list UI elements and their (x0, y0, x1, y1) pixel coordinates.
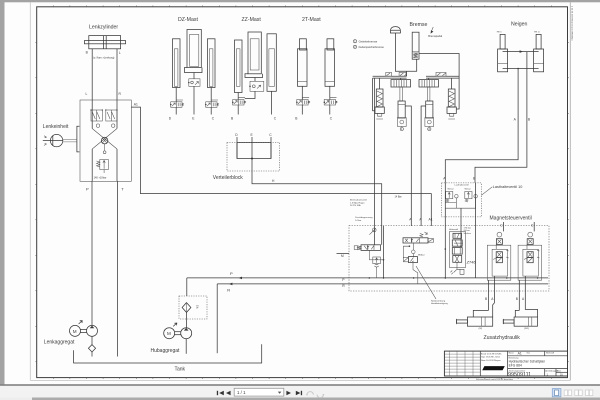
svg-text:Lenkaggregat: Lenkaggregat (44, 340, 75, 346)
svg-text:HK re: HK re (534, 30, 540, 33)
connector wire (368, 250, 370, 259)
wire piston side (503, 68, 539, 70)
wire (301, 86, 303, 99)
internal wires (445, 198, 475, 208)
svg-text:10u: 10u (196, 305, 199, 310)
wire (237, 105, 239, 115)
svg-text:Bremse: Bremse (410, 22, 428, 28)
svg-text:Hubventil: Hubventil (449, 228, 459, 231)
wire rod side (503, 51, 539, 53)
button last page (296, 391, 301, 395)
valve block boundary (349, 226, 549, 292)
wire (210, 107, 212, 114)
gauge port (372, 228, 376, 232)
pump P2 (181, 328, 192, 339)
svg-text:R: R (227, 287, 230, 292)
svg-text:M: M (167, 331, 171, 336)
svg-text:Gepr 13.05.98 L.Schm: Gepr 13.05.98 L.Schm (481, 356, 500, 359)
tilt cylinder right (536, 34, 541, 49)
brake rail right (426, 75, 459, 77)
svg-text:DZ-Mast: DZ-Mast (178, 17, 198, 23)
wire C stub (270, 137, 272, 159)
svg-text:90 bar: 90 bar (448, 188, 454, 191)
svg-text:Druckbegrenzung: Druckbegrenzung (355, 216, 373, 219)
wire H to valve block (252, 159, 382, 227)
cylinder foot (245, 74, 263, 78)
svg-text:(W): (W) (479, 328, 483, 330)
cylinder 2T right (327, 39, 334, 50)
wire R cylinder to steering unit (116, 49, 118, 100)
leader to annotation (416, 266, 436, 299)
steering wheel (50, 134, 62, 146)
legend item 2 Federspeicherbremse (353, 45, 356, 48)
svg-text:14 Bar: 14 Bar (395, 196, 402, 199)
scan right trim line (569, 2, 571, 380)
svg-text:A1: A1 (429, 217, 433, 221)
load holding valve box (441, 183, 481, 217)
wire master cylinder right circuit (419, 54, 459, 110)
R rail (217, 283, 548, 285)
cylinder Lenkzylinder through-rod (84, 41, 125, 44)
svg-text:90 bar: 90 bar (465, 188, 471, 191)
cylinder ZZ left (235, 40, 243, 93)
gerotor metering unit (101, 137, 108, 144)
svg-text:L: L (119, 51, 121, 55)
leader line (482, 187, 493, 195)
wire down center (460, 208, 462, 246)
wire pump suction (185, 339, 187, 354)
cylinder foot (185, 68, 203, 73)
brake rail left (373, 75, 407, 77)
svg-text:26 PS 10A: 26 PS 10A (350, 204, 361, 207)
wire T steering down to tank (117, 181, 119, 356)
wire A through (444, 183, 446, 278)
svg-text:Bremsdruckventil: Bremsdruckventil (350, 199, 367, 202)
cylinder DZ right (208, 39, 216, 88)
svg-text:Lasthalteventil 10: Lasthalteventil 10 (493, 185, 523, 189)
layout button active (552, 389, 561, 397)
aux cylinder 2 (515, 310, 519, 317)
solenoid chain (528, 232, 533, 237)
brake cylinder right (428, 87, 430, 101)
release valve right (425, 118, 434, 127)
P rail (187, 277, 548, 279)
wire brake left to valve block (405, 106, 411, 226)
title block outer (444, 351, 567, 376)
valve 2T-B (296, 98, 309, 105)
wire A1 out (131, 107, 431, 226)
R arrow (229, 283, 233, 286)
button prev page (226, 391, 231, 395)
svg-text:P: P (86, 186, 89, 191)
svg-text:M: M (73, 329, 77, 334)
svg-text:ZT46: ZT46 (466, 261, 477, 265)
node junction (251, 158, 253, 160)
spring brake cylinder right (448, 89, 455, 107)
svg-text:HK li: HK li (497, 31, 502, 33)
svg-text:Handbetaetigung: Handbetaetigung (431, 302, 448, 305)
legend item 1 Getriebebremse (353, 40, 356, 43)
wire (193, 86, 195, 114)
relief check right (465, 192, 472, 199)
rail valve (399, 72, 406, 76)
wire B down (488, 280, 490, 310)
wire down to circle (412, 243, 414, 250)
wire brake feed down (374, 78, 376, 245)
valve DZ-E pilot check (188, 79, 200, 87)
svg-text:Werkstoff: Werkstoff (546, 351, 554, 354)
cylinder DZ left (173, 39, 181, 88)
nested boxes (495, 244, 497, 249)
svg-text:Bearb 12.05.98 G.Hoffm: Bearb 12.05.98 G.Hoffm (481, 352, 502, 355)
toolbar bottom strip (0, 398, 600, 400)
mechanical shaft (63, 139, 77, 141)
rotate buttons grayed (307, 392, 323, 398)
pressure relief (373, 257, 381, 264)
relief check left (446, 192, 453, 199)
valve DZ-C (205, 100, 218, 107)
button next page (286, 391, 302, 395)
svg-text:B: B (485, 297, 487, 301)
main dividers (480, 351, 567, 376)
svg-text:L: L (86, 92, 88, 96)
wire (329, 105, 331, 115)
wire (237, 93, 239, 100)
solenoid chain (497, 232, 502, 237)
cylinder Lenkzylinder piston (102, 36, 104, 49)
button first page (217, 391, 231, 395)
emergency lowering valve (408, 257, 417, 263)
wire A down to load holding (445, 69, 518, 183)
scan left trim line (29, 2, 31, 380)
svg-text:Neigen: Neigen (511, 22, 528, 28)
valve ZZ-E pilot check (249, 81, 264, 91)
wire (254, 78, 256, 82)
shaft bracket (77, 126, 80, 152)
cylinder 2T left (300, 39, 307, 50)
wire (271, 91, 273, 114)
filter F1 box (179, 296, 207, 319)
wire R return to tank (216, 284, 218, 353)
wire B through (475, 183, 477, 278)
wire rail to spring cylinder (373, 78, 375, 111)
svg-text:Aend.Ausgabe: Aend.Ausgabe (545, 369, 557, 372)
drain symbol (454, 262, 464, 274)
wire B down (518, 280, 520, 310)
rotation arrows (44, 136, 47, 138)
wire E stub (251, 137, 253, 159)
brake pedal (390, 27, 400, 33)
filter diamond (182, 303, 191, 313)
wire L inside (91, 100, 93, 129)
steering unit box U1 (80, 100, 131, 181)
port M stub (337, 253, 350, 255)
cylinder DZ center free-lift (187, 30, 201, 68)
svg-text:Magnetsteuerventil: Magnetsteuerventil (490, 215, 532, 221)
wire pedal stem (395, 33, 416, 71)
svg-text:Verteilerblock: Verteilerblock (213, 175, 244, 181)
ref circle 2 (428, 126, 430, 127)
svg-text:Senken: Senken (464, 233, 472, 235)
layout buttons inactive (564, 390, 593, 396)
svg-text:Lenkzylinder: Lenkzylinder (89, 25, 118, 31)
wire (329, 86, 331, 99)
viewer left gray strip (0, 0, 5, 385)
master cylinder (412, 32, 419, 59)
wire filter to pump (186, 312, 188, 327)
svg-text:Bremspedal: Bremspedal (428, 34, 442, 38)
P arrow (238, 277, 242, 280)
tank (74, 344, 262, 363)
main prop valve (403, 238, 428, 243)
svg-text:175 bar: 175 bar (464, 227, 472, 230)
viewer top gray band (0, 0, 600, 2)
rail valve (386, 72, 392, 76)
svg-text:2T-Mast: 2T-Mast (302, 17, 321, 23)
main valve (361, 245, 381, 251)
svg-text:Zusatzhydraulik: Zusatzhydraulik (484, 335, 521, 341)
release valve left (397, 118, 406, 127)
svg-text:Lasthalteventil: Lasthalteventil (455, 184, 469, 187)
stack elements (453, 233, 462, 238)
junction dot (506, 277, 508, 279)
bypass wire (403, 246, 409, 258)
disc brake stack left (391, 80, 411, 87)
wire (210, 88, 212, 102)
svg-text:1.5 Mpa Hagro: 1.5 Mpa Hagro (350, 201, 365, 204)
brake cylinder left (400, 87, 402, 101)
svg-text:99509111: 99509111 (508, 372, 531, 378)
valve 2T-C (324, 98, 337, 105)
disc brake stack right (419, 80, 439, 87)
svg-text:A1: A1 (134, 103, 138, 107)
svg-text:Notabsenkung: Notabsenkung (431, 300, 446, 303)
toolbar top border (0, 384, 600, 386)
pedal leader arrow (432, 27, 434, 31)
svg-text:14 bar: 14 bar (355, 219, 361, 222)
svg-text:Blatt: Blatt (557, 370, 561, 373)
valve DZ-D (170, 100, 183, 107)
wire A down (493, 276, 495, 303)
svg-text:Schutzvermerk nach DIN 34 beac: Schutzvermerk nach DIN 34 beachten (476, 378, 514, 381)
drive arrow (173, 323, 177, 326)
scan bottom edge line (30, 379, 570, 381)
junction dot (537, 277, 539, 279)
wire valve to R rail (413, 263, 418, 284)
svg-text:Norm 14.05.98 Wagner: Norm 14.05.98 Wagner (481, 359, 501, 362)
tilt cylinder left (500, 34, 505, 49)
svg-text:Gez: Gez (527, 352, 531, 354)
wire A down (524, 276, 526, 303)
suction strainer S1 (88, 345, 95, 352)
wire R inside (116, 100, 118, 129)
shock valve left (91, 110, 102, 121)
cylinder ZZ center free-lift (248, 32, 261, 74)
svg-text:(W2): (W2) (524, 328, 529, 330)
pump P1 (87, 325, 98, 336)
wire B down to load holding (475, 52, 527, 183)
dots (445, 248, 447, 250)
svg-text:Masst: Masst (509, 351, 515, 354)
svg-text:Lenkeinheit: Lenkeinheit (43, 124, 69, 130)
wire (175, 107, 177, 114)
rail valve (436, 72, 446, 76)
nested boxes (526, 244, 528, 249)
cylinder ZZ right plunger (267, 34, 276, 92)
junction dot (409, 245, 411, 247)
svg-text:1 11.03.2003 Bornemann 9950: 1 11.03.2003 Bornemann 99509111 (571, 6, 574, 41)
svg-text:140 +10bar: 140 +10bar (94, 177, 107, 180)
svg-text:Hubaggregat: Hubaggregat (151, 348, 181, 354)
wire P steering down to pump (91, 181, 93, 325)
junction dots (369, 277, 371, 279)
valve ZZ-B (232, 98, 245, 105)
shaft (81, 328, 87, 330)
junction dot (413, 277, 415, 279)
wire (193, 73, 195, 79)
check valve circles (96, 124, 99, 127)
svg-text:P: P (230, 271, 233, 276)
wire L cylinder to steering unit (91, 49, 93, 100)
wire continuation below cross (91, 149, 93, 181)
spring brake cylinder left (376, 89, 383, 107)
revision grid (444, 351, 480, 376)
distributor block Verteilerblock (227, 143, 280, 172)
page number box (234, 388, 284, 396)
svg-text:B: B (516, 297, 518, 301)
svg-text:380bar: 380bar (418, 254, 425, 257)
svg-text:EFG 884: EFG 884 (509, 364, 522, 368)
stack outline (450, 232, 466, 268)
svg-text:A1: A1 (518, 352, 522, 356)
svg-text:Tank: Tank (175, 366, 186, 372)
wire feed to left rail (406, 71, 408, 76)
crossed lines (92, 129, 117, 150)
toolbar background (0, 386, 600, 398)
svg-text:M: M (341, 254, 344, 258)
wire D stub (236, 137, 238, 159)
wire brake right to valve block (421, 106, 426, 226)
right vertical (383, 226, 385, 278)
svg-text:Federspeicherbremse: Federspeicherbremse (359, 45, 385, 49)
logo Jungheinrich (482, 366, 505, 370)
relief valve (100, 160, 109, 170)
wire P rail to filter (186, 278, 188, 296)
wire H feed into group (381, 226, 383, 245)
small check circle (103, 151, 106, 154)
ref circle 1 (401, 126, 403, 127)
wire (301, 105, 303, 115)
svg-text:ZZ-Mast: ZZ-Mast (242, 17, 262, 23)
motor M1 (70, 325, 81, 336)
shock valve right (106, 110, 117, 121)
svg-text:1 / 1: 1 / 1 (237, 390, 246, 395)
svg-text:Getriebebremse: Getriebebremse (359, 40, 378, 44)
drive arrow (79, 321, 83, 324)
motor M2 (164, 328, 175, 339)
wire (175, 88, 177, 102)
cylinder Lenkzylinder body (89, 36, 121, 49)
aux cylinder 1 (473, 310, 488, 317)
svg-text:(o. Kam.+Lenkung): (o. Kam.+Lenkung) (93, 57, 114, 60)
